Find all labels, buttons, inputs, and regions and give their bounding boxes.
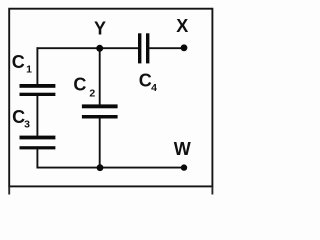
wire: bottom rail [37, 167, 185, 169]
node X terminal dot [181, 44, 188, 51]
wire: C2 to bottom rail junction [99, 118, 101, 167]
svg-text:2: 2 [89, 87, 95, 99]
capacitor C4 [138, 33, 149, 63]
border frame [9, 9, 212, 187]
node W terminal dot [181, 164, 187, 170]
svg-text:C: C [73, 75, 86, 95]
wire: C1 to C3 [36, 96, 38, 136]
svg-text:C: C [12, 107, 25, 127]
capacitor C1 [20, 84, 56, 96]
wire: C3 to bottom rail [36, 149, 38, 168]
svg-text:Y: Y [94, 19, 106, 39]
capacitor C3 [20, 136, 56, 150]
svg-text:C: C [12, 52, 25, 72]
svg-text:4: 4 [151, 82, 157, 94]
right border stub below frame [211, 186, 213, 194]
label C3 [12, 107, 30, 131]
capacitor C2 [82, 104, 118, 118]
svg-text:3: 3 [24, 119, 30, 131]
svg-text:C: C [139, 71, 152, 91]
label C1 [12, 52, 32, 76]
node Y junction dot [96, 45, 103, 52]
svg-text:X: X [176, 16, 188, 36]
left border stub below frame [8, 186, 10, 194]
wire: C4 right plate to node X [149, 47, 184, 49]
wire: top rail from left branch to C4 left plate [37, 47, 139, 49]
label C2 [73, 75, 95, 100]
label C4 [139, 71, 157, 95]
svg-text:W: W [174, 139, 191, 159]
wire: middle branch vertical, node Y to C2 [99, 48, 101, 104]
bottom rail junction dot [97, 164, 104, 171]
svg-text:1: 1 [26, 63, 32, 75]
wire: left branch vertical, top rail to C1 [36, 47, 38, 84]
